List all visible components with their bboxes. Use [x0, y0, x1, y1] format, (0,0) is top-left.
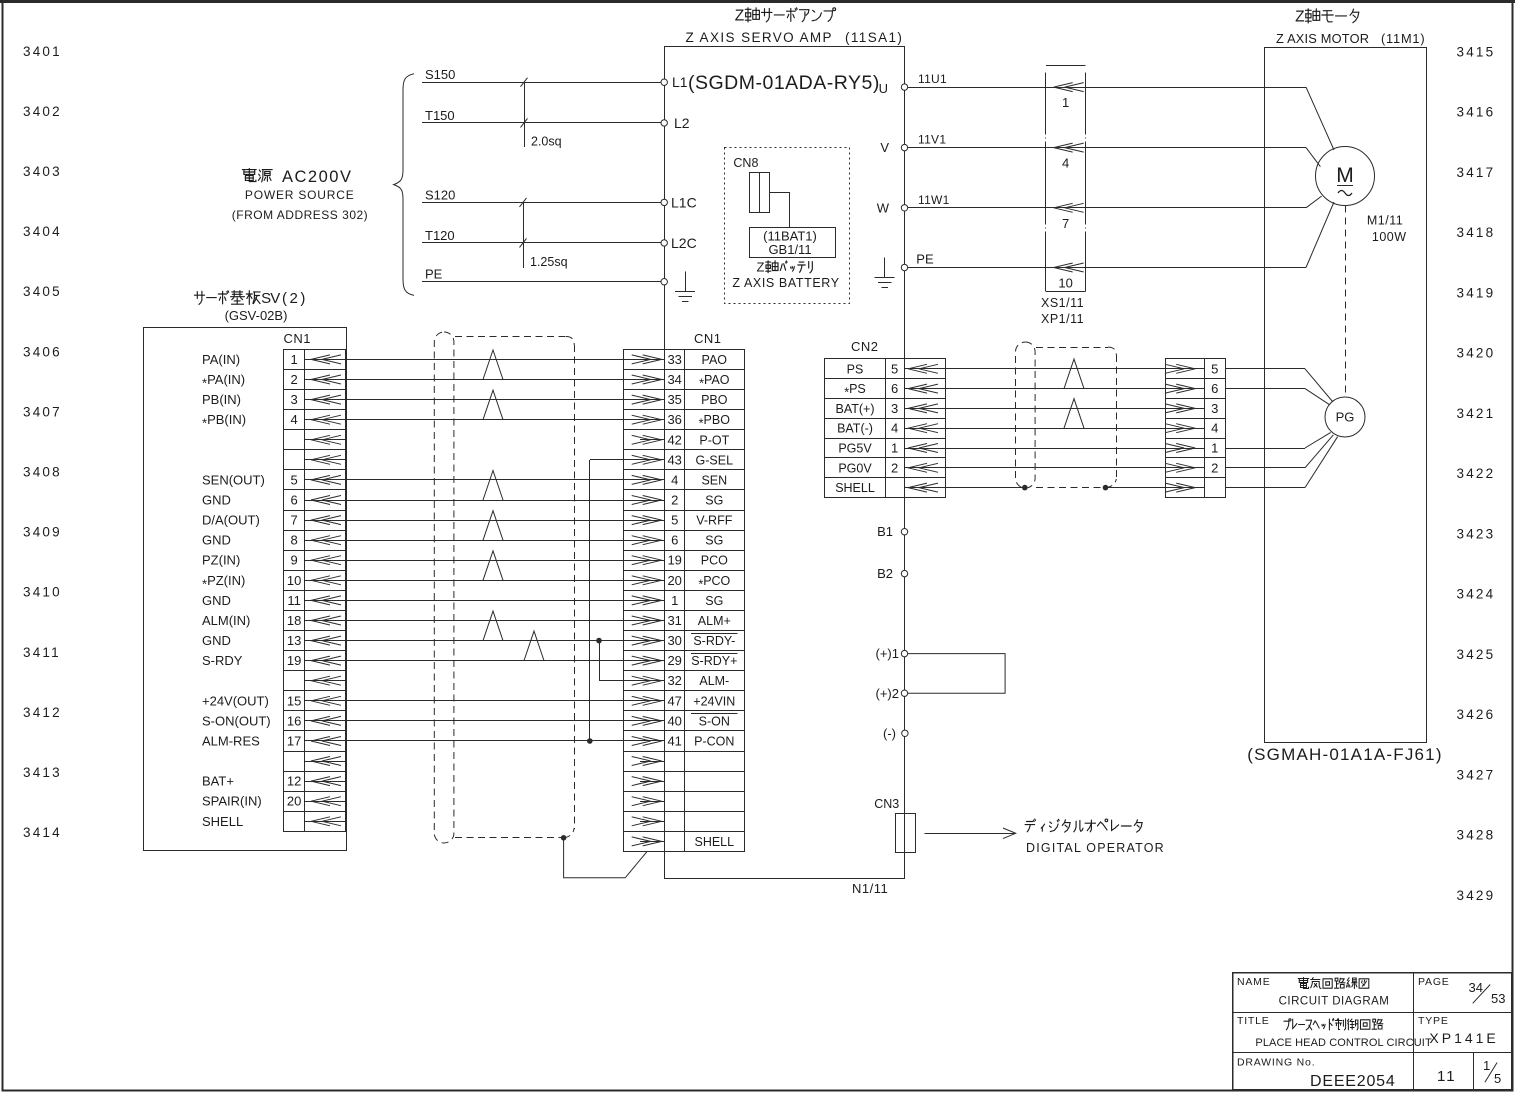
svg-text:15: 15	[287, 693, 301, 708]
svg-text:*PS: *PS	[844, 382, 866, 400]
svg-text:3413: 3413	[23, 765, 62, 780]
svg-text:CN2: CN2	[851, 339, 879, 354]
svg-text:3417: 3417	[1457, 165, 1496, 180]
svg-text:3419: 3419	[1457, 285, 1496, 300]
svg-text:29: 29	[667, 653, 681, 668]
svg-text:3: 3	[290, 392, 297, 407]
svg-text:+24VIN: +24VIN	[693, 694, 735, 708]
svg-text:3414: 3414	[23, 825, 62, 840]
svg-text:2.0sq: 2.0sq	[531, 135, 562, 149]
svg-text:V: V	[270, 290, 280, 307]
svg-text:11U1: 11U1	[918, 72, 947, 86]
svg-text:3401: 3401	[23, 44, 62, 59]
svg-text:(FROM ADDRESS 302): (FROM ADDRESS 302)	[232, 208, 368, 222]
svg-text:W: W	[877, 201, 890, 216]
svg-text:1.25sq: 1.25sq	[530, 255, 568, 269]
svg-text:3429: 3429	[1457, 888, 1496, 903]
svg-text:(+)2: (+)2	[876, 686, 899, 701]
svg-text:33: 33	[667, 352, 681, 367]
svg-text:4: 4	[290, 412, 297, 427]
svg-text:34: 34	[667, 372, 681, 387]
svg-text:S120: S120	[425, 187, 455, 202]
svg-text:Z: Z	[757, 260, 765, 275]
svg-text:3407: 3407	[23, 404, 62, 419]
svg-text:34: 34	[1469, 980, 1483, 995]
svg-text:CN1: CN1	[694, 331, 722, 346]
svg-text:4: 4	[1062, 156, 1069, 171]
svg-text:POWER SOURCE: POWER SOURCE	[245, 188, 355, 202]
svg-text:PG: PG	[1336, 410, 1355, 425]
svg-text:*PZ(IN): *PZ(IN)	[202, 573, 245, 592]
svg-text:Z AXIS MOTOR: Z AXIS MOTOR	[1276, 31, 1369, 46]
svg-text:3415: 3415	[1457, 44, 1496, 59]
svg-text:(11SA1): (11SA1)	[845, 30, 903, 45]
svg-text:B1: B1	[877, 524, 893, 539]
svg-text:8: 8	[290, 533, 297, 548]
svg-text:ALM-: ALM-	[699, 674, 729, 688]
svg-text:PG5V: PG5V	[838, 442, 872, 456]
svg-text:(+)1: (+)1	[876, 646, 899, 661]
svg-text:N1/11: N1/11	[852, 881, 888, 896]
svg-text:3425: 3425	[1457, 647, 1496, 662]
svg-text:6: 6	[1211, 381, 1218, 396]
svg-text:6: 6	[671, 533, 678, 548]
svg-text:PB(IN): PB(IN)	[202, 392, 241, 407]
svg-text:S-ON(OUT): S-ON(OUT)	[202, 713, 271, 728]
svg-text:3: 3	[1211, 401, 1218, 416]
svg-text:PG0V: PG0V	[838, 461, 872, 475]
svg-text:2: 2	[671, 493, 678, 508]
svg-text:1: 1	[671, 593, 678, 608]
svg-text:3416: 3416	[1457, 105, 1496, 120]
svg-text:S-RDY-: S-RDY-	[693, 634, 735, 648]
svg-text:4: 4	[891, 421, 898, 436]
svg-text:Z: Z	[735, 8, 744, 25]
svg-text:ALM-RES: ALM-RES	[202, 734, 260, 749]
svg-text:3412: 3412	[23, 705, 62, 720]
svg-text:3418: 3418	[1457, 225, 1496, 240]
svg-text:43: 43	[667, 452, 681, 467]
svg-text:11: 11	[1437, 1068, 1457, 1085]
svg-text:XP1/11: XP1/11	[1041, 312, 1084, 326]
svg-text:AC200V: AC200V	[282, 168, 352, 186]
svg-text:M: M	[1336, 164, 1354, 187]
svg-text:10: 10	[1058, 276, 1072, 291]
svg-text:Z AXIS SERVO AMP: Z AXIS SERVO AMP	[686, 30, 833, 45]
svg-text:42: 42	[667, 432, 681, 447]
svg-text:+24V(OUT): +24V(OUT)	[202, 693, 269, 708]
svg-text:GND: GND	[202, 493, 231, 508]
svg-text:DRAWING No.: DRAWING No.	[1237, 1057, 1315, 1069]
svg-text:3422: 3422	[1457, 466, 1496, 481]
svg-text:G-SEL: G-SEL	[696, 453, 734, 467]
svg-text:PS: PS	[847, 362, 864, 376]
svg-text:GND: GND	[202, 633, 231, 648]
svg-text:3403: 3403	[23, 164, 62, 179]
svg-text:3421: 3421	[1457, 406, 1496, 421]
svg-text:1: 1	[891, 441, 898, 456]
svg-text:5: 5	[1211, 361, 1218, 376]
svg-text:100W: 100W	[1372, 230, 1407, 244]
svg-text:P-OT: P-OT	[699, 433, 729, 447]
svg-text:CN1: CN1	[284, 331, 312, 346]
svg-text:20: 20	[667, 573, 681, 588]
svg-text:12: 12	[287, 774, 301, 789]
svg-text:): )	[300, 290, 305, 307]
svg-text:GND: GND	[202, 593, 231, 608]
svg-text:D/A(OUT): D/A(OUT)	[202, 513, 260, 528]
svg-text:BAT+: BAT+	[202, 774, 234, 789]
svg-text:*PBO: *PBO	[699, 413, 731, 431]
svg-text:3405: 3405	[23, 284, 62, 299]
svg-text:(-): (-)	[883, 726, 896, 741]
svg-text:4: 4	[671, 472, 678, 487]
svg-text:TITLE: TITLE	[1237, 1015, 1270, 1027]
svg-text:SHELL: SHELL	[835, 481, 875, 495]
svg-text:M1/11: M1/11	[1367, 214, 1403, 228]
svg-text:V: V	[880, 140, 889, 155]
svg-text:BAT(-): BAT(-)	[837, 422, 873, 436]
svg-text:1: 1	[1211, 441, 1218, 456]
svg-text:2: 2	[290, 290, 298, 307]
svg-text:3: 3	[891, 401, 898, 416]
svg-text:*PA(IN): *PA(IN)	[202, 372, 245, 391]
svg-text:3402: 3402	[23, 104, 62, 119]
svg-text:L2: L2	[674, 115, 690, 131]
svg-text:PAGE: PAGE	[1418, 976, 1450, 988]
svg-text:40: 40	[667, 713, 681, 728]
svg-text:SHELL: SHELL	[694, 835, 734, 849]
svg-text:3426: 3426	[1457, 707, 1496, 722]
svg-text:V-RFF: V-RFF	[696, 514, 732, 528]
svg-text:(SGDM-01ADA-RY5): (SGDM-01ADA-RY5)	[688, 72, 880, 94]
svg-text:GB1/11: GB1/11	[768, 242, 811, 257]
svg-text:TYPE: TYPE	[1418, 1015, 1449, 1027]
svg-text:PA(IN): PA(IN)	[202, 352, 240, 367]
svg-text:S-RDY: S-RDY	[202, 653, 243, 668]
svg-text:PLACE HEAD CONTROL CIRCUIT: PLACE HEAD CONTROL CIRCUIT	[1255, 1037, 1432, 1049]
svg-text:(11M1): (11M1)	[1381, 31, 1425, 46]
svg-text:SG: SG	[705, 534, 723, 548]
svg-text:ALM(IN): ALM(IN)	[202, 613, 250, 628]
svg-text:*PB(IN): *PB(IN)	[202, 412, 246, 431]
svg-text:Z AXIS BATTERY: Z AXIS BATTERY	[732, 276, 839, 290]
svg-text:31: 31	[667, 613, 681, 628]
svg-text:3423: 3423	[1457, 526, 1496, 541]
svg-text:PE: PE	[425, 267, 443, 282]
svg-text:L1: L1	[672, 74, 688, 90]
svg-text:B2: B2	[877, 566, 893, 581]
svg-text:3427: 3427	[1457, 767, 1496, 782]
svg-text:3424: 3424	[1457, 587, 1496, 602]
svg-text:5: 5	[891, 361, 898, 376]
svg-text:GND: GND	[202, 533, 231, 548]
svg-text:7: 7	[1062, 216, 1069, 231]
svg-text:*PAO: *PAO	[699, 373, 730, 391]
svg-text:5: 5	[671, 513, 678, 528]
svg-text:PAO: PAO	[702, 353, 728, 367]
svg-text:XP141E: XP141E	[1429, 1030, 1498, 1046]
svg-text:41: 41	[667, 734, 681, 749]
svg-text:(SGMAH-01A1A-FJ61): (SGMAH-01A1A-FJ61)	[1247, 745, 1442, 764]
svg-text:XS1/11: XS1/11	[1041, 296, 1084, 310]
svg-text:3404: 3404	[23, 224, 62, 239]
svg-text:3411: 3411	[23, 645, 61, 660]
svg-text:PBO: PBO	[701, 393, 728, 407]
svg-text:SHELL: SHELL	[202, 814, 243, 829]
svg-text:PCO: PCO	[701, 554, 728, 568]
svg-text:16: 16	[287, 713, 301, 728]
svg-text:53: 53	[1491, 991, 1505, 1006]
svg-text:DEEE2054: DEEE2054	[1310, 1073, 1396, 1090]
svg-text:19: 19	[667, 553, 681, 568]
svg-text:10: 10	[287, 573, 301, 588]
svg-text:CN3: CN3	[874, 797, 899, 811]
svg-text:NAME: NAME	[1237, 976, 1271, 988]
svg-text:(: (	[282, 290, 287, 307]
svg-text:S-ON: S-ON	[699, 714, 730, 728]
svg-text:L1C: L1C	[671, 195, 697, 211]
svg-text:3428: 3428	[1457, 828, 1496, 843]
svg-text:13: 13	[287, 633, 301, 648]
svg-text:47: 47	[667, 693, 681, 708]
svg-text:36: 36	[667, 412, 681, 427]
svg-text:SEN: SEN	[701, 473, 727, 487]
svg-text:PZ(IN): PZ(IN)	[202, 553, 240, 568]
svg-text:9: 9	[290, 553, 297, 568]
svg-text:Z: Z	[1295, 9, 1304, 26]
svg-text:5: 5	[1494, 1071, 1501, 1086]
svg-text:3408: 3408	[23, 465, 62, 480]
svg-text:3410: 3410	[23, 585, 62, 600]
svg-text:(GSV-02B): (GSV-02B)	[225, 308, 288, 323]
svg-text:ALM+: ALM+	[698, 614, 731, 628]
svg-text:T120: T120	[425, 228, 455, 243]
svg-text:3409: 3409	[23, 525, 62, 540]
svg-text:1: 1	[290, 352, 297, 367]
svg-text:CIRCUIT DIAGRAM: CIRCUIT DIAGRAM	[1279, 996, 1390, 1008]
svg-text:32: 32	[667, 673, 681, 688]
svg-text:S-RDY+: S-RDY+	[691, 654, 737, 668]
svg-text:U: U	[879, 81, 888, 96]
svg-text:PE: PE	[916, 252, 934, 267]
svg-text:2: 2	[891, 460, 898, 475]
svg-text:1: 1	[1062, 95, 1069, 110]
svg-text:2: 2	[290, 372, 297, 387]
svg-text:1: 1	[1483, 1058, 1490, 1073]
svg-text:3420: 3420	[1457, 346, 1496, 361]
svg-text:20: 20	[287, 794, 301, 809]
svg-text:*PCO: *PCO	[698, 574, 730, 592]
svg-text:6: 6	[290, 493, 297, 508]
svg-text:BAT(+): BAT(+)	[835, 402, 874, 416]
svg-text:SPAIR(IN): SPAIR(IN)	[202, 794, 262, 809]
svg-text:19: 19	[287, 653, 301, 668]
svg-text:11: 11	[287, 593, 301, 608]
svg-text:DIGITAL OPERATOR: DIGITAL OPERATOR	[1026, 841, 1165, 855]
svg-text:S150: S150	[425, 67, 455, 82]
svg-text:5: 5	[290, 472, 297, 487]
svg-text:2: 2	[1211, 460, 1218, 475]
svg-text:L2C: L2C	[671, 235, 697, 251]
svg-text:30: 30	[667, 633, 681, 648]
svg-text:11V1: 11V1	[918, 133, 946, 147]
svg-text:35: 35	[667, 392, 681, 407]
svg-text:SEN(OUT): SEN(OUT)	[202, 472, 265, 487]
svg-text:11W1: 11W1	[918, 193, 950, 207]
svg-text:18: 18	[287, 613, 301, 628]
svg-text:3406: 3406	[23, 344, 62, 359]
svg-text:T150: T150	[425, 108, 455, 123]
svg-text:SG: SG	[705, 594, 723, 608]
svg-text:17: 17	[287, 734, 301, 749]
svg-text:SG: SG	[705, 494, 723, 508]
svg-text:4: 4	[1211, 421, 1218, 436]
svg-text:7: 7	[290, 513, 297, 528]
svg-text:6: 6	[891, 381, 898, 396]
svg-text:CN8: CN8	[733, 156, 758, 170]
svg-text:P-CON: P-CON	[694, 735, 734, 749]
